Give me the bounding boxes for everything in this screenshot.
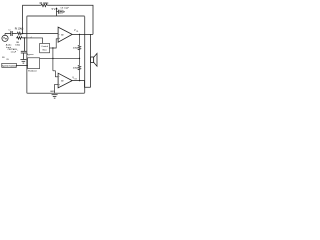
wire to IN- pin <box>22 33 27 35</box>
svg-text:Ri 10kΩ: Ri 10kΩ <box>15 27 24 30</box>
op-amp A1 <box>58 27 72 42</box>
wire chain <box>79 50 81 65</box>
svg-text:1.0 µF: 1.0 µF <box>10 51 16 53</box>
svg-text:Bypass: Bypass <box>27 54 34 56</box>
node chain mid <box>79 58 80 59</box>
svg-text:Bias: Bias <box>43 50 47 52</box>
svg-text:Control: Control <box>41 45 48 48</box>
wire to Cs <box>57 11 59 13</box>
wire feedback to VO1 <box>48 5 93 34</box>
wire IN- internal <box>27 33 58 35</box>
capacitor Ci <box>10 31 12 36</box>
svg-text:40kΩ: 40kΩ <box>73 47 79 49</box>
wire mid horizontal <box>40 57 80 59</box>
ground CS <box>61 10 63 14</box>
svg-text:CS 1.0µF: CS 1.0µF <box>60 7 69 9</box>
ground CB <box>20 59 26 61</box>
svg-text:IN: IN <box>7 59 10 61</box>
source V1 <box>2 35 8 41</box>
svg-text:O1: O1 <box>76 31 78 33</box>
wire input <box>5 33 11 35</box>
node VO1 <box>79 34 80 35</box>
svg-text:System Control: System Control <box>1 65 17 68</box>
box system control <box>2 63 16 67</box>
wire <box>13 33 17 35</box>
capacitor CB <box>21 50 27 52</box>
box shutdown <box>28 58 40 69</box>
box bias <box>40 43 50 52</box>
svg-text:5 V: 5 V <box>52 8 56 11</box>
svg-text:40kΩ: 40kΩ <box>73 67 79 69</box>
svg-text:O2: O2 <box>74 78 76 80</box>
wire A2 +in to gnd <box>55 84 59 93</box>
node bias <box>52 47 53 48</box>
wire SD <box>16 64 27 66</box>
resistor chain R2 <box>78 65 81 70</box>
wire bypass internal <box>27 38 43 44</box>
speaker LS1 <box>91 57 94 63</box>
wire A2 -in <box>53 71 58 77</box>
wire speaker lead <box>90 34 92 87</box>
wire feedback top <box>23 5 41 33</box>
node input junction <box>22 33 23 34</box>
svg-text:4: 4 <box>30 37 31 39</box>
IC outline U1 <box>27 16 85 93</box>
capacitor CS <box>58 10 60 14</box>
resistor Rf <box>41 4 48 7</box>
resistor chain R1 <box>79 34 81 44</box>
svg-text:Rf 10kΩ: Rf 10kΩ <box>40 2 49 5</box>
wire chain bottom <box>79 70 81 80</box>
ground pin symbol <box>52 94 58 96</box>
wire bypass down <box>23 38 25 51</box>
wire cap to ground <box>22 53 24 59</box>
supply arrow 5V <box>56 8 58 16</box>
resistor bypass RB <box>16 37 27 40</box>
svg-text:GND: GND <box>50 91 55 93</box>
wire bias vertical <box>52 48 54 71</box>
svg-text:Shutdown: Shutdown <box>28 70 37 73</box>
resistor Ri <box>17 32 22 35</box>
wire A1 +in <box>53 39 58 48</box>
wire VO2 <box>72 81 90 88</box>
node VO2 <box>79 80 80 81</box>
wire <box>60 11 61 13</box>
wire VO1 <box>72 33 93 35</box>
node bypass <box>24 37 25 38</box>
wire bias out <box>50 47 53 49</box>
svg-text:10kΩ: 10kΩ <box>15 45 20 47</box>
op-amp A2 <box>58 73 72 88</box>
svg-text:SD: SD <box>2 57 5 59</box>
node mid <box>52 58 53 59</box>
svg-text:+: + <box>17 49 19 51</box>
